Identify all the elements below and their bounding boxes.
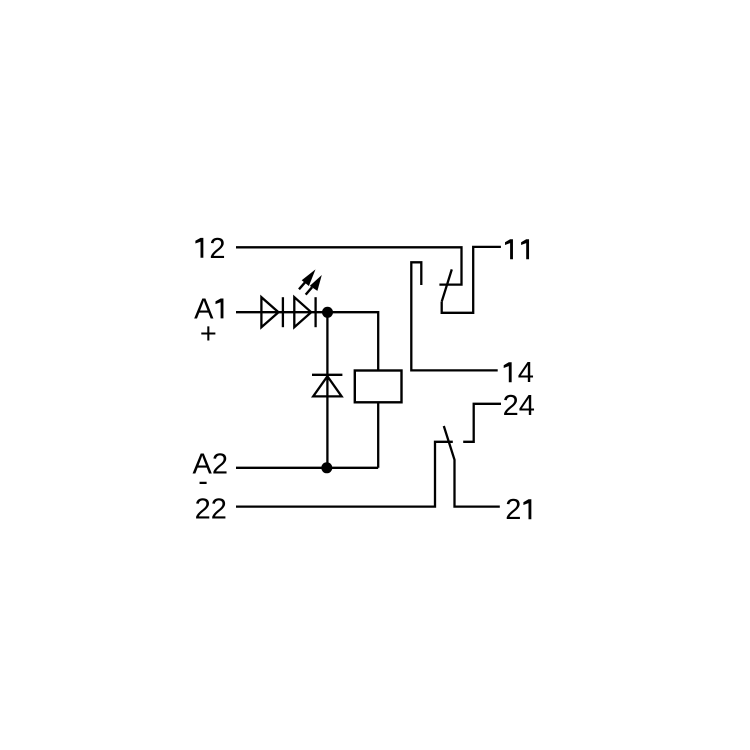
svg-text:2: 2 [209, 233, 225, 265]
svg-text:+: + [200, 318, 217, 350]
svg-text:22: 22 [195, 494, 227, 526]
svg-text:4: 4 [518, 357, 534, 389]
svg-text:2: 2 [505, 494, 521, 526]
svg-text:24: 24 [503, 390, 535, 422]
svg-text:-: - [198, 465, 208, 497]
